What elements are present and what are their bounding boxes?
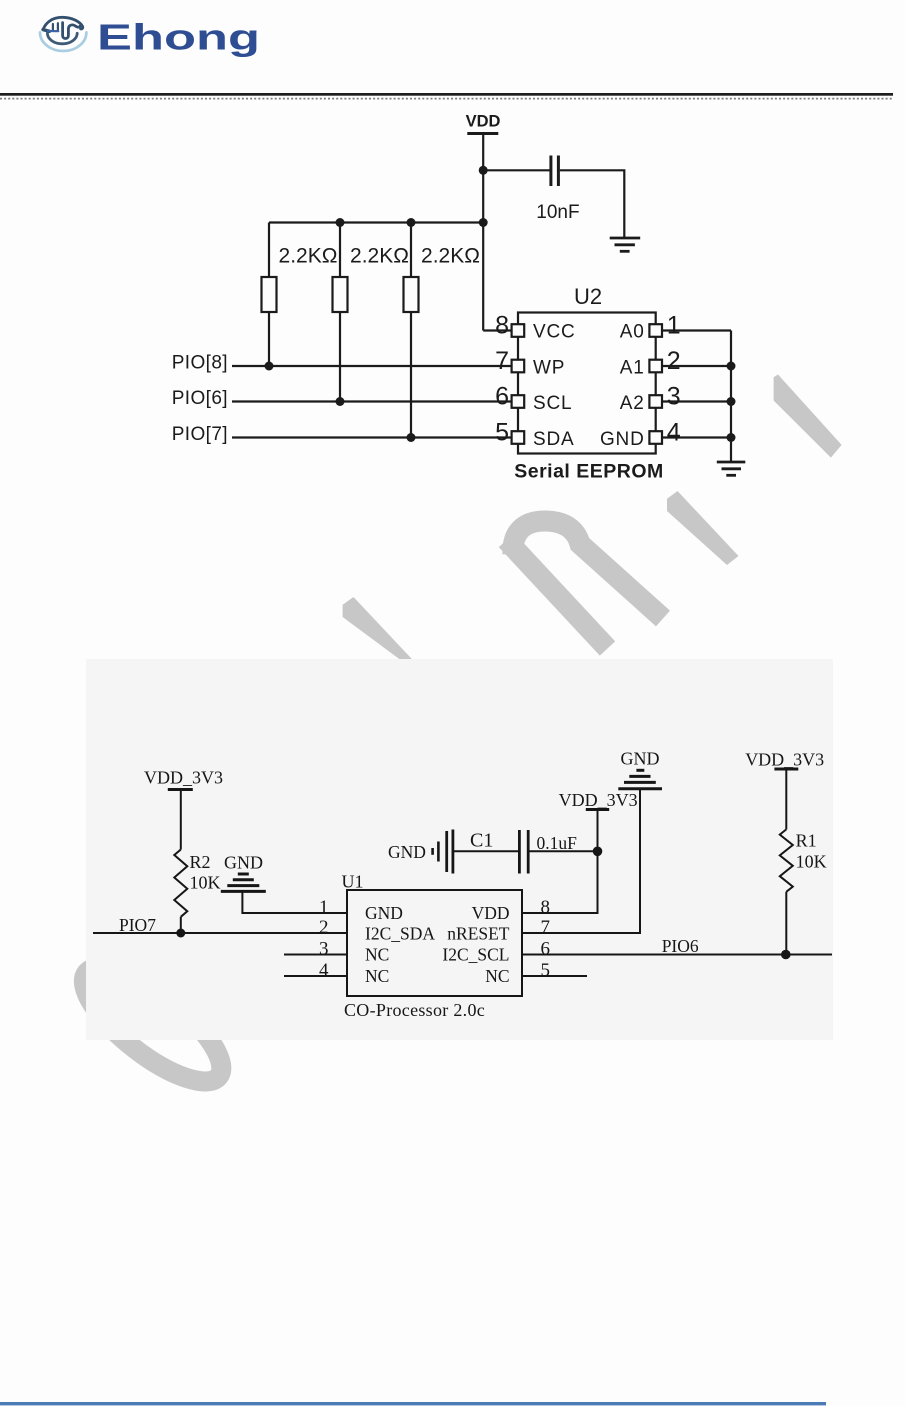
watermark — [343, 375, 842, 662]
svg-text:3: 3 — [667, 383, 681, 411]
pin 5 SDA — [512, 431, 525, 444]
node rail-R2 — [336, 218, 345, 227]
svg-text:2.2KΩ: 2.2KΩ — [350, 245, 409, 268]
svg-text:6: 6 — [495, 383, 509, 411]
wire VDD to pin8 — [483, 329, 511, 331]
pin 4 GND — [649, 431, 662, 444]
svg-text:R1: R1 — [796, 831, 817, 851]
svg-text:I2C_SDA: I2C_SDA — [365, 924, 435, 944]
watermark ring — [68, 949, 237, 1100]
svg-text:10K: 10K — [190, 873, 221, 893]
wire to capacitor — [483, 169, 549, 171]
svg-text:WP: WP — [533, 358, 565, 379]
node VDD-rail junction — [479, 218, 488, 227]
svg-text:SDA: SDA — [533, 429, 574, 450]
svg-text:PIO[7]: PIO[7] — [172, 424, 228, 445]
wire gnd to C1 — [454, 850, 518, 852]
wire GND to bus — [662, 436, 731, 438]
svg-text:CO-Processor 2.0c: CO-Processor 2.0c — [344, 1000, 485, 1020]
pin 7 WP — [512, 360, 525, 373]
wire PIO[8] — [232, 365, 512, 367]
svg-text:U2: U2 — [574, 284, 602, 309]
wire VDD vertical — [482, 134, 484, 331]
wire pin5 stub — [522, 975, 587, 977]
svg-text:SCL: SCL — [533, 393, 572, 414]
wire C1 to VDD node — [530, 850, 598, 852]
svg-text:PIO6: PIO6 — [662, 936, 699, 956]
svg-text:2: 2 — [319, 917, 329, 938]
svg-text:GND: GND — [224, 853, 263, 873]
gray panel — [86, 659, 833, 1040]
svg-text:Ehong: Ehong — [97, 17, 260, 58]
wire pin4 stub — [284, 975, 347, 977]
wire PIO[7] — [232, 436, 512, 438]
svg-text:1: 1 — [319, 897, 329, 918]
logo icon — [40, 17, 86, 51]
wire GND to pin7 — [522, 789, 640, 933]
ground (capacitor) — [610, 237, 641, 240]
ground (U2) — [717, 461, 746, 464]
wire PIO7 / pin2 — [93, 932, 347, 934]
node PIO6-R1 — [781, 950, 791, 960]
svg-text:VDD: VDD — [466, 113, 501, 131]
svg-text:GND: GND — [365, 903, 403, 923]
svg-text:C1: C1 — [470, 830, 493, 852]
svg-text:8: 8 — [495, 312, 509, 340]
wire PIO[6] — [232, 400, 512, 402]
svg-text:Serial EEPROM: Serial EEPROM — [514, 461, 664, 483]
svg-text:2.2KΩ: 2.2KΩ — [279, 245, 338, 268]
resistor R2 10K — [174, 850, 187, 917]
svg-text:10nF: 10nF — [536, 202, 579, 223]
node PIO7-R2 — [176, 929, 185, 938]
wire ground bus vertical — [730, 331, 732, 462]
wire VDD to pin8 — [522, 810, 598, 914]
svg-text:7: 7 — [495, 347, 509, 375]
header separator — [0, 93, 893, 96]
wire A1 to bus — [662, 365, 731, 367]
svg-text:A2: A2 — [620, 393, 645, 414]
svg-text:VDD_3V3: VDD_3V3 — [144, 768, 223, 788]
svg-text:5: 5 — [541, 960, 551, 981]
svg-text:4: 4 — [667, 419, 681, 447]
pin 8 VCC — [512, 324, 525, 337]
resistor 2.2K (right) — [410, 223, 412, 278]
node C1-VDD junction — [593, 847, 603, 857]
svg-text:GND: GND — [621, 749, 660, 769]
wire pin3 stub — [284, 954, 347, 956]
wire GND to pin1 — [242, 891, 347, 913]
svg-text:8: 8 — [541, 897, 551, 918]
svg-text:3: 3 — [319, 939, 329, 960]
svg-text:A1: A1 — [620, 358, 645, 379]
svg-text:2: 2 — [667, 347, 681, 375]
resistor R1 10K — [780, 829, 793, 891]
capacitor 10nF — [549, 156, 552, 187]
svg-text:U1: U1 — [342, 872, 364, 892]
node VDD-cap junction — [479, 166, 488, 175]
svg-text:VDD_3V3: VDD_3V3 — [559, 790, 638, 810]
svg-text:6: 6 — [541, 939, 551, 960]
pin 1 A0 — [649, 324, 662, 337]
svg-text:NC: NC — [365, 945, 389, 965]
svg-text:7: 7 — [541, 917, 551, 938]
svg-text:VDD_3V3: VDD_3V3 — [745, 750, 824, 770]
svg-text:VDD: VDD — [472, 903, 510, 923]
wire capacitor to ground — [560, 170, 625, 237]
resistor 2.2K (middle) — [339, 223, 341, 278]
footer line — [0, 1402, 826, 1405]
svg-text:PIO[8]: PIO[8] — [172, 353, 228, 374]
svg-text:2.2KΩ: 2.2KΩ — [421, 245, 480, 268]
wire A2 to bus — [662, 400, 731, 402]
wire A0 to bus — [662, 329, 731, 331]
wire pin6 PIO6 — [522, 954, 832, 956]
svg-text:I2C_SCL: I2C_SCL — [442, 945, 509, 965]
watermark letter n — [507, 521, 664, 649]
svg-text:GND: GND — [388, 842, 426, 862]
svg-text:5: 5 — [495, 419, 509, 447]
svg-text:NC: NC — [365, 966, 389, 986]
resistor 2.2K (left) — [268, 223, 270, 278]
svg-text:nRESET: nRESET — [447, 924, 510, 944]
svg-text:4: 4 — [319, 960, 329, 981]
svg-text:A0: A0 — [620, 322, 645, 343]
svg-text:GND: GND — [600, 429, 645, 450]
svg-text:10K: 10K — [796, 852, 827, 872]
svg-text:PIO[6]: PIO[6] — [172, 388, 228, 409]
node rail-R3 — [407, 218, 416, 227]
svg-text:1: 1 — [667, 312, 681, 340]
svg-text:NC: NC — [485, 966, 509, 986]
svg-text:0.1uF: 0.1uF — [537, 833, 578, 853]
pin 2 A1 — [649, 360, 662, 373]
svg-text:VCC: VCC — [533, 322, 576, 343]
svg-text:R2: R2 — [190, 852, 211, 872]
wire pull-up rail — [269, 221, 483, 223]
pin 3 A2 — [649, 395, 662, 408]
pin 6 SCL — [512, 395, 525, 408]
